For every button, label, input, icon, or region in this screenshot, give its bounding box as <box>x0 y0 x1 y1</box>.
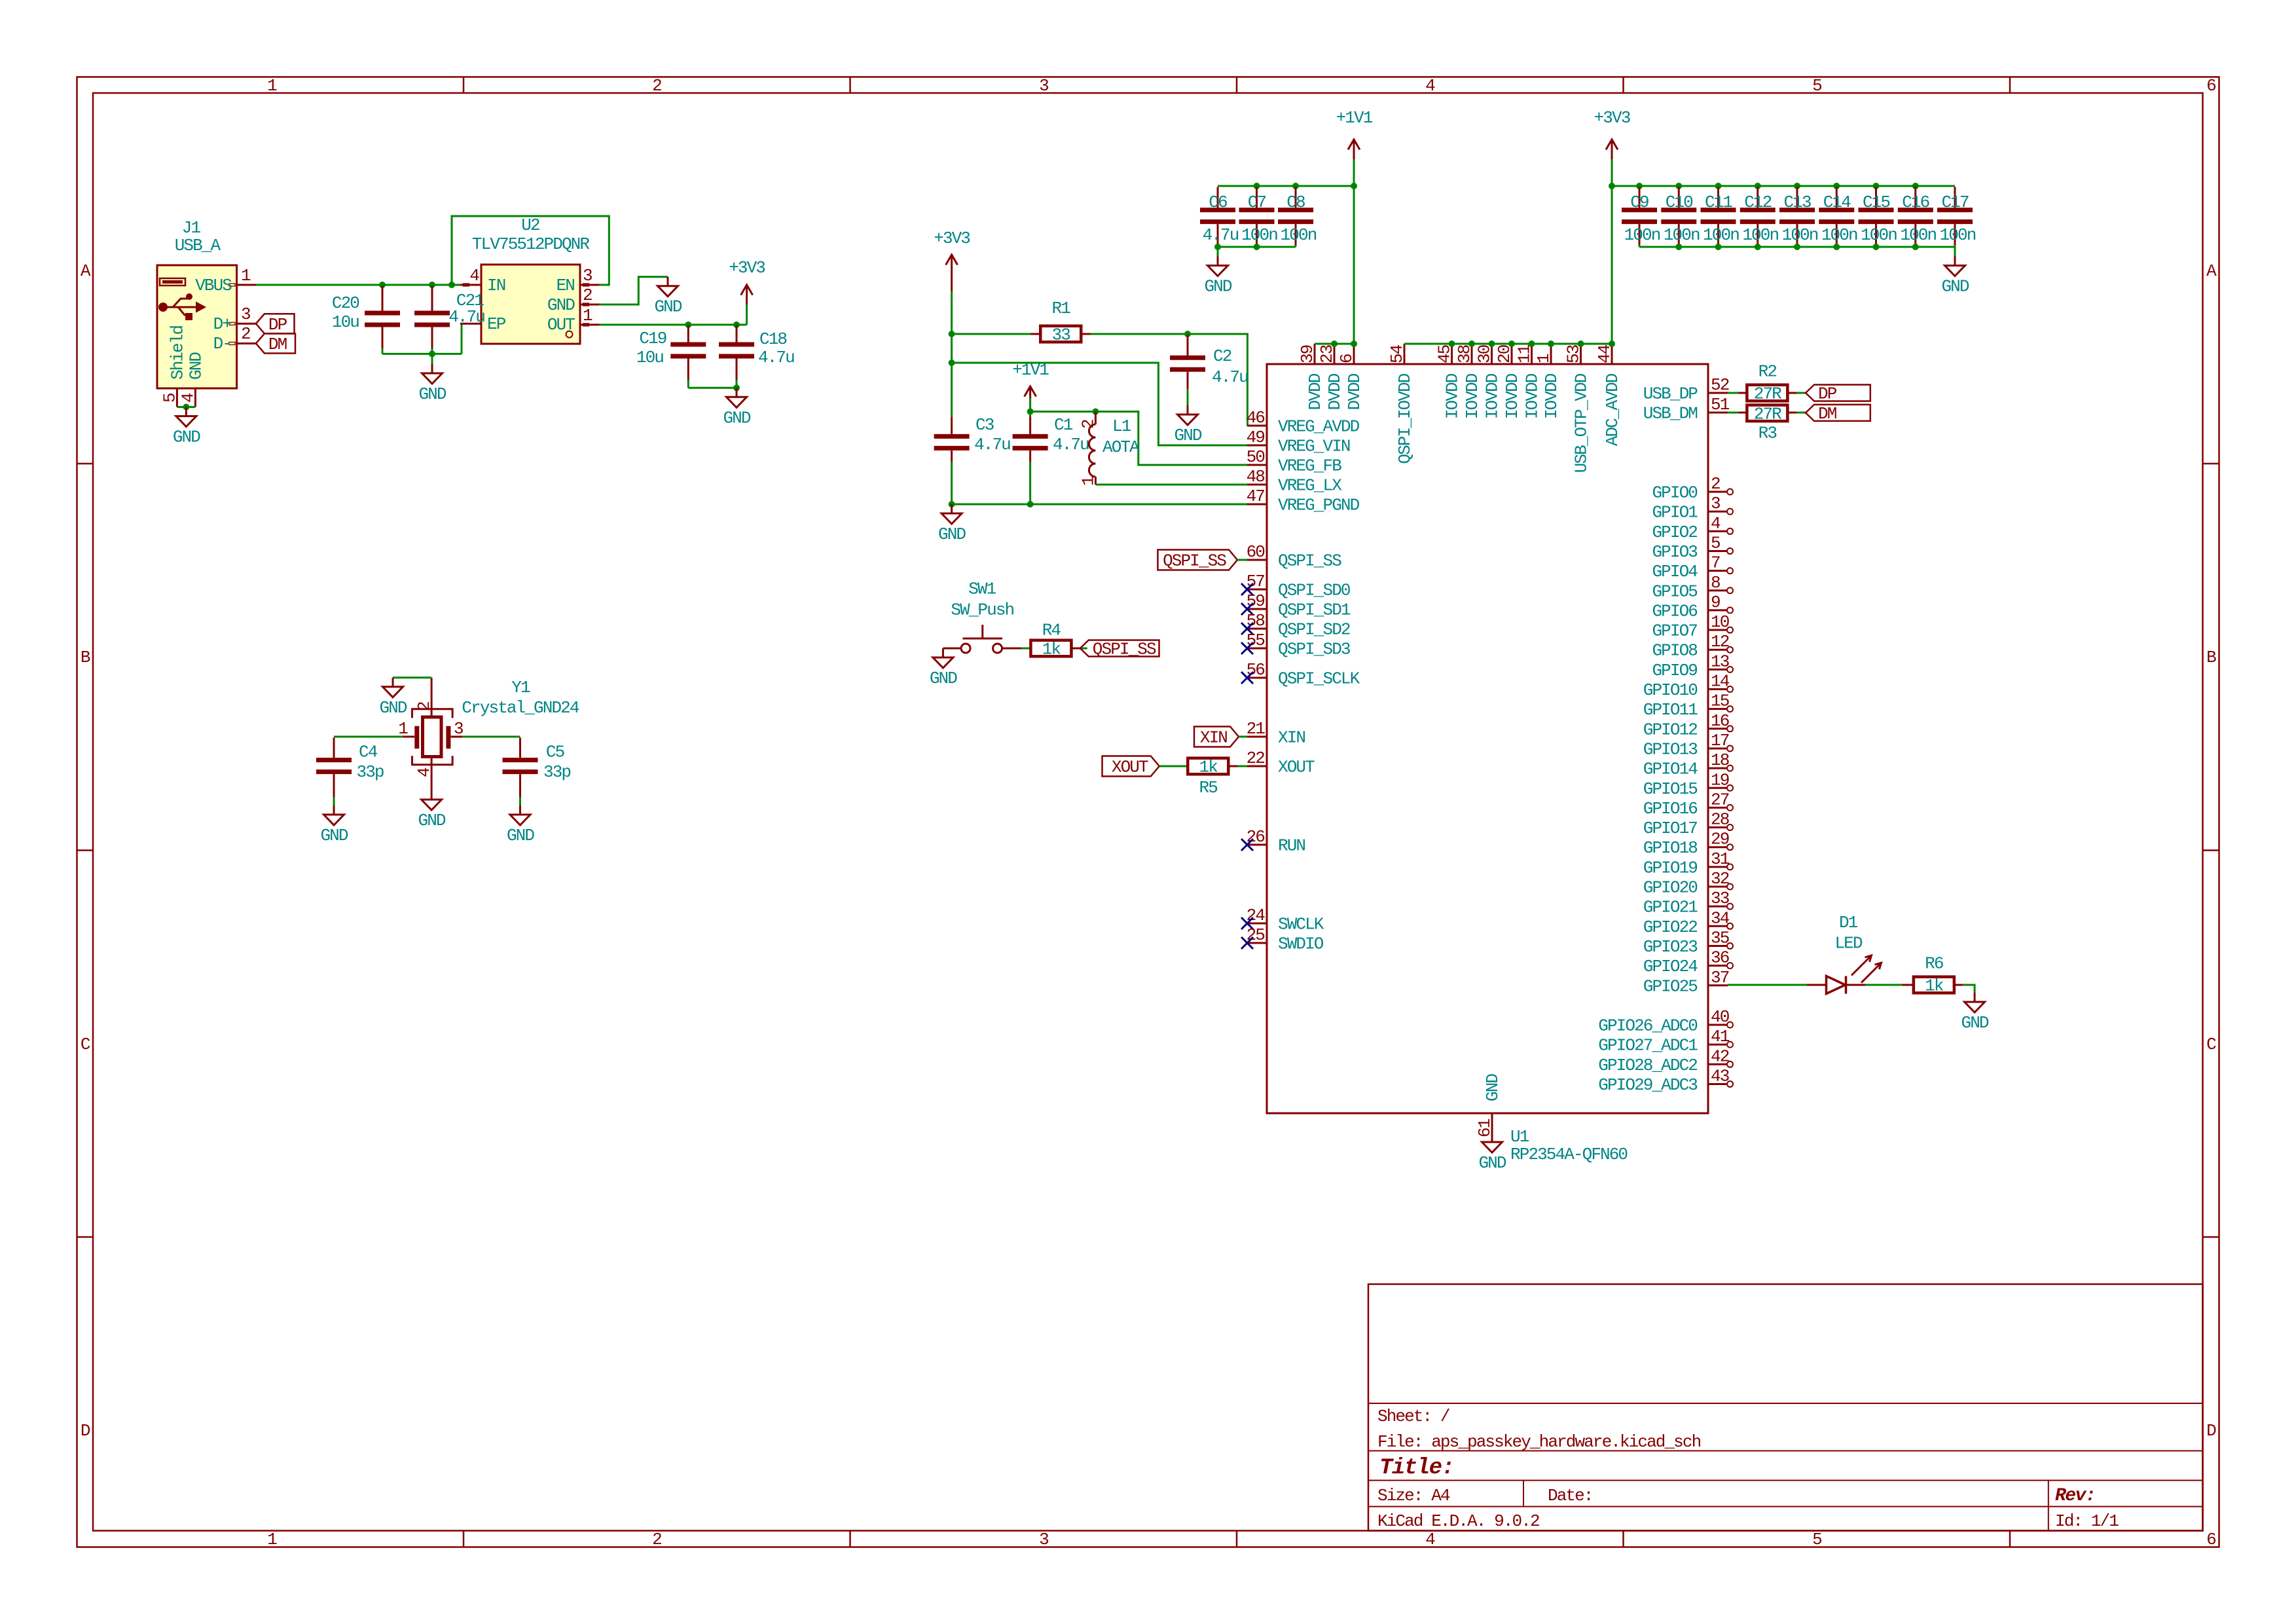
svg-text:Id: 1/1: Id: 1/1 <box>2055 1511 2119 1531</box>
resistor R2 <box>1738 392 1747 394</box>
power +3V3 at U2 output <box>746 314 748 325</box>
svg-text:GPIO25: GPIO25 <box>1643 976 1698 996</box>
wire VBUS from J1 to U2 <box>256 284 460 286</box>
svg-text:File: aps_passkey_hardware.kic: File: aps_passkey_hardware.kicad_sch <box>1377 1432 1701 1452</box>
svg-text:QSPI_SD0: QSPI_SD0 <box>1278 581 1350 600</box>
junction IOVDD bus <box>1468 341 1475 347</box>
U1 pin 8 GPIO5 <box>1708 589 1728 591</box>
svg-text:EN: EN <box>556 276 575 295</box>
junction top bus C16 <box>1912 183 1919 189</box>
wire LED to R6 <box>1865 984 1901 986</box>
svg-text:3: 3 <box>1039 1530 1048 1549</box>
wire C8 bottom <box>1295 246 1297 247</box>
junction VBUS at C21 <box>429 282 435 288</box>
svg-text:2: 2 <box>652 76 661 96</box>
wire +3V3 down to ADC_AVDD <box>1611 186 1613 344</box>
connector J1 body <box>157 265 237 388</box>
wire R5 to pin 22 <box>1238 766 1248 767</box>
wire Y1 pin1 to C4 <box>334 736 403 738</box>
wire C6 bottom <box>1217 246 1219 247</box>
svg-text:GND: GND <box>930 669 957 688</box>
svg-text:27: 27 <box>1711 790 1729 809</box>
svg-text:15: 15 <box>1711 692 1729 711</box>
svg-text:R4: R4 <box>1042 621 1061 640</box>
ground below J1 <box>185 407 187 416</box>
unconnected pin circle GPIO1 <box>1727 509 1733 515</box>
wire IOVDD bus <box>1404 343 1612 345</box>
svg-text:GND: GND <box>507 826 534 845</box>
wire C6-C8 bottom bus <box>1218 246 1296 248</box>
svg-text:GPIO4: GPIO4 <box>1652 562 1698 581</box>
U1 pin 53 USB_OTP_VDD <box>1580 344 1582 364</box>
svg-text:Date:: Date: <box>1548 1486 1593 1505</box>
ground under C19 C18 <box>736 388 738 397</box>
U1 pin 19 GPIO15 <box>1708 787 1728 789</box>
crystal Y1 electrodes <box>414 726 419 749</box>
svg-text:52: 52 <box>1711 375 1729 395</box>
SW1 left pin <box>943 648 961 650</box>
svg-text:4: 4 <box>178 393 198 403</box>
svg-text:GPIO1: GPIO1 <box>1652 503 1698 523</box>
svg-text:GPIO23: GPIO23 <box>1643 937 1698 957</box>
wire ground stub C6 <box>1217 247 1219 257</box>
U1 pin 6 DVDD <box>1353 344 1355 364</box>
crystal Y1 bottom bracket <box>412 756 453 765</box>
svg-text:18: 18 <box>1711 750 1729 770</box>
svg-text:C2: C2 <box>1213 346 1231 366</box>
svg-text:GND: GND <box>1174 426 1201 445</box>
wire C13 bottom <box>1796 246 1798 247</box>
svg-text:1: 1 <box>1534 354 1554 363</box>
U1 pin 18 GPIO14 <box>1708 767 1728 769</box>
U1 pin 23 DVDD <box>1334 344 1336 364</box>
svg-text:U1: U1 <box>1510 1127 1529 1147</box>
capacitor C7 <box>1256 187 1258 208</box>
svg-text:VREG_FB: VREG_FB <box>1278 456 1341 476</box>
wire L1 to VREG_LX <box>1095 484 1247 486</box>
wire R4 to label <box>1081 648 1087 650</box>
svg-text:R6: R6 <box>1925 953 1943 973</box>
svg-text:GPIO7: GPIO7 <box>1652 621 1697 641</box>
capacitor C10 <box>1678 187 1680 208</box>
SW1 right pin <box>1002 648 1022 650</box>
svg-text:53: 53 <box>1564 345 1584 363</box>
svg-text:17: 17 <box>1711 731 1729 750</box>
wire C9-C17 bottom bus <box>1639 246 1955 248</box>
no-connect X <box>1241 583 1253 595</box>
svg-text:R5: R5 <box>1199 778 1218 798</box>
junction top bus C13 <box>1794 183 1800 189</box>
global label XIN <box>1194 727 1239 747</box>
junction J1 ground <box>183 404 189 411</box>
wire ground stub <box>431 354 433 364</box>
global label QSPI_SS at R4 <box>1080 640 1159 657</box>
svg-text:4: 4 <box>1425 1530 1435 1549</box>
J1 pin 1 VBUS <box>237 284 256 286</box>
svg-text:33p: 33p <box>543 762 570 782</box>
svg-text:GPIO13: GPIO13 <box>1643 739 1698 759</box>
junction IOVDD bus <box>1489 341 1495 347</box>
svg-text:QSPI_SD3: QSPI_SD3 <box>1278 640 1350 659</box>
svg-text:43: 43 <box>1711 1066 1729 1086</box>
svg-text:GND: GND <box>1961 1013 1989 1033</box>
U1 pin 46 VREG_AVDD <box>1247 425 1267 427</box>
unconnected pin circle GPIO24 <box>1727 963 1733 969</box>
svg-text:4.7u: 4.7u <box>1203 225 1239 245</box>
svg-text:1: 1 <box>583 306 592 325</box>
svg-text:IOVDD: IOVDD <box>1542 373 1561 419</box>
capacitor C2 <box>1187 335 1189 356</box>
svg-text:DVDD: DVDD <box>1345 373 1364 410</box>
wire ground bus under C19 C18 <box>688 387 737 389</box>
svg-text:GND: GND <box>320 826 348 845</box>
power +1V1 top rail <box>1353 159 1355 186</box>
wire +3V3 down to C3 <box>951 334 953 416</box>
junction top bus C14 <box>1833 183 1840 189</box>
ground at Y1 pin 4 <box>431 790 433 800</box>
svg-text:GPIO9: GPIO9 <box>1652 661 1697 680</box>
wire USB_DP to R2 <box>1728 392 1738 394</box>
wire C15 bottom <box>1875 246 1877 247</box>
svg-text:QSPI_SD1: QSPI_SD1 <box>1278 600 1351 620</box>
junction bottom bus C14 <box>1833 244 1840 250</box>
junction OUT at C19 <box>685 322 691 328</box>
U1 pin 15 GPIO11 <box>1708 708 1728 710</box>
crystal Y1 body <box>423 717 442 757</box>
global label DP at J1 <box>256 314 295 333</box>
svg-text:33: 33 <box>1052 325 1070 345</box>
wire C14 bottom <box>1836 246 1838 247</box>
junction VREG_VIN wire <box>949 360 955 366</box>
svg-text:6: 6 <box>1337 354 1357 363</box>
junction VBUS at EN loop <box>448 282 455 288</box>
svg-text:27R: 27R <box>1754 384 1781 404</box>
svg-text:10: 10 <box>1711 612 1729 632</box>
junction +3V3 top <box>1609 183 1615 189</box>
svg-text:3: 3 <box>241 304 250 324</box>
svg-text:4: 4 <box>1711 513 1721 533</box>
U1 pin 20 IOVDD <box>1511 344 1513 364</box>
wire R6 to ground <box>1963 985 1975 993</box>
capacitor C11 <box>1717 187 1719 208</box>
svg-text:GPIO19: GPIO19 <box>1643 858 1698 877</box>
junction IOVDD bus <box>1508 341 1515 347</box>
junction ground rail at C1 <box>1027 501 1034 507</box>
svg-text:VREG_VIN: VREG_VIN <box>1278 437 1350 456</box>
wire U2 EP down <box>461 323 463 354</box>
svg-text:16: 16 <box>1711 711 1729 731</box>
capacitor C3 <box>951 416 953 434</box>
U2 pin 1 OUT <box>580 323 600 325</box>
U1 pin 41 GPIO27_ADC1 <box>1708 1044 1728 1046</box>
ground at U1 pin 61 <box>1491 1133 1493 1142</box>
svg-text:3: 3 <box>1711 494 1720 513</box>
junction top bus C8 <box>1292 183 1299 189</box>
U1 pin 10 GPIO7 <box>1708 629 1728 631</box>
junction top bus C11 <box>1715 183 1722 189</box>
svg-text:4: 4 <box>414 767 434 777</box>
wire C9 bottom <box>1639 246 1641 247</box>
capacitor C9 <box>1639 187 1641 208</box>
wire R2 to DP label <box>1796 392 1806 394</box>
svg-text:100n: 100n <box>1900 225 1936 245</box>
unconnected pin circle GPIO18 <box>1727 844 1733 850</box>
U2 pin EP <box>460 323 481 325</box>
svg-text:GND: GND <box>379 698 407 718</box>
svg-text:47: 47 <box>1247 487 1265 506</box>
svg-text:GPIO21: GPIO21 <box>1643 898 1698 917</box>
junction bottom bus C15 <box>1873 244 1880 250</box>
svg-text:C6: C6 <box>1209 193 1227 212</box>
U2 pin 3 EN <box>580 284 600 286</box>
svg-text:GND: GND <box>1941 277 1969 297</box>
svg-text:100n: 100n <box>1821 225 1857 245</box>
svg-text:100n: 100n <box>1241 225 1277 245</box>
svg-text:4.7u: 4.7u <box>758 348 794 367</box>
svg-text:GND: GND <box>186 352 206 380</box>
svg-text:4.7u: 4.7u <box>1053 435 1089 454</box>
svg-text:D: D <box>2206 1421 2216 1441</box>
U1 pin 1 IOVDD <box>1550 344 1552 364</box>
svg-text:5: 5 <box>160 394 179 403</box>
svg-text:38: 38 <box>1455 345 1474 363</box>
no-connect X <box>1241 623 1253 635</box>
svg-text:XOUT: XOUT <box>1112 758 1148 777</box>
wire GPIO25 to LED <box>1728 984 1807 986</box>
svg-text:GPIO12: GPIO12 <box>1643 720 1698 739</box>
wire C4 bottom <box>333 797 335 805</box>
svg-text:C10: C10 <box>1666 193 1692 212</box>
svg-text:R2: R2 <box>1758 361 1777 381</box>
unconnected pin circle GPIO2 <box>1727 528 1733 534</box>
capacitor C16 <box>1914 187 1916 208</box>
J1 USB trident icon <box>158 303 168 312</box>
unconnected pin circle GPIO5 <box>1727 587 1733 593</box>
svg-text:1: 1 <box>267 76 277 96</box>
svg-text:D-: D- <box>213 334 231 354</box>
svg-text:SWCLK: SWCLK <box>1278 915 1324 934</box>
svg-text:36: 36 <box>1711 948 1729 968</box>
svg-text:33: 33 <box>1711 889 1729 908</box>
unconnected pin circle GPIO13 <box>1727 745 1733 751</box>
U1 pin 4 GPIO2 <box>1708 530 1728 532</box>
svg-text:1: 1 <box>241 266 251 286</box>
unconnected pin circle GPIO9 <box>1727 667 1733 673</box>
svg-text:49: 49 <box>1247 428 1265 447</box>
junction bottom bus C11 <box>1715 244 1722 250</box>
svg-text:Shield: Shield <box>168 325 187 380</box>
svg-text:ADC_AVDD: ADC_AVDD <box>1603 373 1622 446</box>
svg-text:6: 6 <box>2206 1530 2215 1549</box>
svg-text:IN: IN <box>487 276 505 295</box>
U1 pin 50 VREG_FB <box>1247 464 1267 466</box>
svg-text:TLV75512PDQNR: TLV75512PDQNR <box>472 234 589 254</box>
capacitor C12 <box>1757 187 1758 208</box>
svg-text:22: 22 <box>1247 748 1265 768</box>
U1 pin 34 GPIO22 <box>1708 925 1728 927</box>
no-connect X <box>1241 937 1253 949</box>
svg-text:C17: C17 <box>1941 193 1968 212</box>
wire C20 bottom <box>382 348 384 354</box>
svg-text:37: 37 <box>1711 968 1729 987</box>
wire C9-C17 top bus <box>1612 185 1955 187</box>
resistor R4 <box>1030 640 1071 657</box>
U2 pin 4 IN <box>460 284 481 286</box>
U1 pin 47 VREG_PGND <box>1247 504 1267 506</box>
U1 pin 39 DVDD <box>1314 344 1316 364</box>
svg-text:C13: C13 <box>1783 193 1810 212</box>
svg-text:Y1: Y1 <box>511 678 530 697</box>
svg-text:IOVDD: IOVDD <box>1463 373 1482 419</box>
no-connect X <box>1241 672 1253 684</box>
unconnected pin circle GPIO17 <box>1727 824 1733 830</box>
frame column ticks bottom <box>463 1531 465 1547</box>
wire C10 bottom <box>1678 246 1680 247</box>
junction VBUS at C20 <box>379 282 386 288</box>
U1 pin 9 GPIO6 <box>1708 609 1728 611</box>
svg-text:4: 4 <box>1425 76 1435 96</box>
svg-text:DP: DP <box>1818 384 1837 404</box>
svg-text:7: 7 <box>1711 553 1720 573</box>
svg-text:1k: 1k <box>1925 976 1944 996</box>
svg-text:12: 12 <box>1711 632 1729 652</box>
U1 pin 3 GPIO1 <box>1708 511 1728 513</box>
svg-text:GPIO3: GPIO3 <box>1652 542 1697 562</box>
svg-text:GPIO0: GPIO0 <box>1652 483 1697 503</box>
wire C16 bottom <box>1914 246 1916 247</box>
junction R1 wire <box>949 331 955 337</box>
svg-text:VREG_LX: VREG_LX <box>1278 476 1342 496</box>
Y1 pin 1 <box>403 736 414 738</box>
capacitor C5 <box>519 738 521 758</box>
svg-text:100n: 100n <box>1861 225 1897 245</box>
svg-text:C11: C11 <box>1705 193 1732 212</box>
svg-text:DM: DM <box>1818 404 1836 424</box>
svg-text:2: 2 <box>1078 420 1098 429</box>
svg-text:C15: C15 <box>1863 193 1889 212</box>
junction top bus C7 <box>1254 183 1260 189</box>
unconnected pin circle GPIO19 <box>1727 864 1733 870</box>
junction under C18 <box>733 384 740 391</box>
title block outline <box>1368 1284 2203 1531</box>
svg-text:48: 48 <box>1247 467 1265 487</box>
U1 pin 51 USB_DM <box>1708 412 1728 414</box>
wire XOUT to R5 <box>1159 766 1188 767</box>
svg-text:GND: GND <box>654 297 682 317</box>
svg-text:9: 9 <box>1711 593 1720 612</box>
wire Y1 pin3 to C5 <box>463 736 520 738</box>
svg-text:C7: C7 <box>1248 193 1266 212</box>
junction IOVDD bus <box>1548 341 1554 347</box>
ground at U2 GND pin <box>667 277 669 286</box>
svg-text:SW_Push: SW_Push <box>951 600 1013 620</box>
capacitor C19 <box>687 325 689 342</box>
svg-text:XIN: XIN <box>1278 728 1305 748</box>
svg-text:R1: R1 <box>1052 299 1071 318</box>
svg-text:GPIO16: GPIO16 <box>1643 799 1698 819</box>
svg-text:46: 46 <box>1247 408 1265 428</box>
svg-text:Size: A4: Size: A4 <box>1377 1486 1450 1505</box>
wire C6-C8 top bus <box>1218 185 1354 187</box>
svg-text:GPIO18: GPIO18 <box>1643 838 1698 858</box>
global label QSPI_SS at U1 <box>1157 550 1237 570</box>
capacitor C21 <box>431 286 433 311</box>
U1 pin 29 GPIO18 <box>1708 846 1728 848</box>
wire U2 OUT <box>600 323 747 325</box>
title block row lines <box>1368 1403 2203 1404</box>
junction top bus +1V1 <box>1351 183 1357 189</box>
U1 pin 31 GPIO19 <box>1708 866 1728 868</box>
svg-text:C: C <box>2206 1035 2216 1054</box>
svg-text:C3: C3 <box>975 415 994 435</box>
U1 pin 24 SWCLK <box>1247 923 1267 925</box>
U1 pin 30 IOVDD <box>1491 344 1493 364</box>
capacitor C17 <box>1954 187 1956 208</box>
wire C19 bottom <box>687 380 689 388</box>
global label XOUT <box>1102 756 1159 777</box>
svg-text:1: 1 <box>1078 476 1098 486</box>
unconnected pin circle GPIO12 <box>1727 726 1733 731</box>
svg-text:35: 35 <box>1711 928 1729 948</box>
svg-text:QSPI_SD2: QSPI_SD2 <box>1278 620 1350 640</box>
svg-text:GPIO20: GPIO20 <box>1643 878 1698 898</box>
junction IOVDD bus <box>1578 341 1584 347</box>
svg-text:B: B <box>2206 648 2216 667</box>
svg-text:30: 30 <box>1475 345 1495 363</box>
wire +3V3 to R1 <box>952 333 1031 335</box>
J1 pin 3 D+ <box>237 323 256 325</box>
svg-text:100n: 100n <box>1664 225 1700 245</box>
wire C12 bottom <box>1757 246 1758 247</box>
U1 pin 61 GND <box>1491 1113 1493 1133</box>
svg-text:50: 50 <box>1247 447 1265 467</box>
svg-text:GND: GND <box>1478 1153 1506 1173</box>
svg-text:100n: 100n <box>1742 225 1778 245</box>
svg-text:C: C <box>81 1035 90 1054</box>
Y1 pin 2 <box>431 678 433 717</box>
svg-text:XOUT: XOUT <box>1278 758 1315 777</box>
junction IOVDD bus <box>1529 341 1535 347</box>
svg-text:5: 5 <box>1812 76 1821 96</box>
Y1 pin 4 <box>431 757 433 791</box>
wire EN loop <box>452 216 609 285</box>
svg-text:AOTA: AOTA <box>1102 437 1140 457</box>
U1 pin 38 IOVDD <box>1471 344 1473 364</box>
svg-text:11: 11 <box>1515 344 1535 363</box>
U1 pin 17 GPIO13 <box>1708 747 1728 749</box>
U1 pin 13 GPIO9 <box>1708 669 1728 671</box>
capacitor C13 <box>1796 187 1798 208</box>
ground at SW1 <box>942 648 944 657</box>
svg-text:VBUS: VBUS <box>195 276 232 295</box>
svg-text:D1: D1 <box>1839 913 1858 932</box>
wire J1 pin5 to pin4 <box>177 406 195 408</box>
resistor R6 <box>1902 984 1914 986</box>
ground under C17 bank <box>1954 257 1956 266</box>
U1 pin 26 RUN <box>1247 844 1267 846</box>
unconnected pin circle GPIO15 <box>1727 785 1733 791</box>
wire QSPI_SS label to pin <box>1237 559 1247 561</box>
wire ground bus under C20 C21 <box>382 353 462 355</box>
svg-text:C12: C12 <box>1744 193 1771 212</box>
unconnected pin circle GPIO28_ADC2 <box>1727 1061 1733 1067</box>
unconnected pin circle GPIO27_ADC1 <box>1727 1042 1733 1048</box>
svg-text:1k: 1k <box>1042 640 1061 659</box>
U1 pin 60 QSPI_SS <box>1247 559 1267 561</box>
U1 pin 16 GPIO12 <box>1708 728 1728 729</box>
svg-text:44: 44 <box>1595 344 1614 363</box>
U1 pin 2 GPIO0 <box>1708 491 1728 493</box>
